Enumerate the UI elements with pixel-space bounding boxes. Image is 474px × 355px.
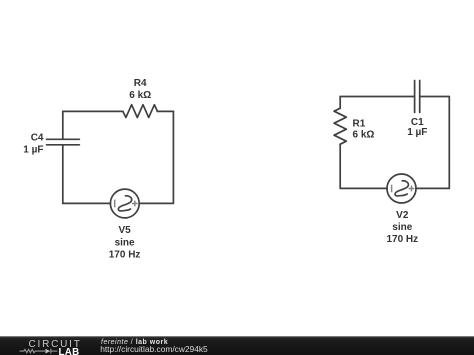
svg-text:sine: sine xyxy=(115,237,135,248)
svg-text:6 kΩ: 6 kΩ xyxy=(129,90,151,101)
wire right-circuit bottom xyxy=(340,187,449,189)
capacitor C4 xyxy=(47,139,80,145)
svg-text:sine: sine xyxy=(392,222,412,233)
logo resistor-diode glyph xyxy=(20,349,58,354)
svg-text:170 Hz: 170 Hz xyxy=(386,234,418,245)
svg-text:1 µF: 1 µF xyxy=(23,144,43,155)
svg-text:V2: V2 xyxy=(396,210,409,221)
V5 sine squiggle xyxy=(118,196,131,211)
V2 sine squiggle xyxy=(395,181,408,196)
svg-text:6 kΩ: 6 kΩ xyxy=(353,130,375,141)
resistor R4 xyxy=(123,105,157,118)
svg-text:R4: R4 xyxy=(134,78,147,89)
logo diode triangle xyxy=(45,349,50,354)
wire left-circuit right xyxy=(172,111,174,203)
voltage source V5 xyxy=(110,189,139,218)
V2 minus mark xyxy=(391,185,393,193)
wire left-circuit top xyxy=(63,110,174,112)
wire right-circuit left xyxy=(339,97,341,189)
resistor R1 xyxy=(334,108,346,144)
svg-text:V5: V5 xyxy=(118,225,131,236)
capacitor C1 xyxy=(415,81,420,113)
svg-text:1 µF: 1 µF xyxy=(407,127,427,138)
wire right-circuit right xyxy=(448,97,450,189)
svg-text:R1: R1 xyxy=(353,118,366,129)
V5 minus mark xyxy=(114,200,116,208)
svg-text:170 Hz: 170 Hz xyxy=(109,250,141,261)
svg-text:LAB: LAB xyxy=(59,347,80,355)
wire left-circuit bottom xyxy=(63,202,174,204)
voltage source V2 xyxy=(387,174,416,203)
V5 plus mark xyxy=(132,201,138,207)
svg-text:http://circuitlab.com/cw294k5: http://circuitlab.com/cw294k5 xyxy=(100,344,208,354)
V2 plus mark xyxy=(409,186,415,192)
wire right-circuit top xyxy=(340,96,449,98)
wire left-circuit left xyxy=(62,111,64,203)
svg-text:C4: C4 xyxy=(31,133,44,144)
